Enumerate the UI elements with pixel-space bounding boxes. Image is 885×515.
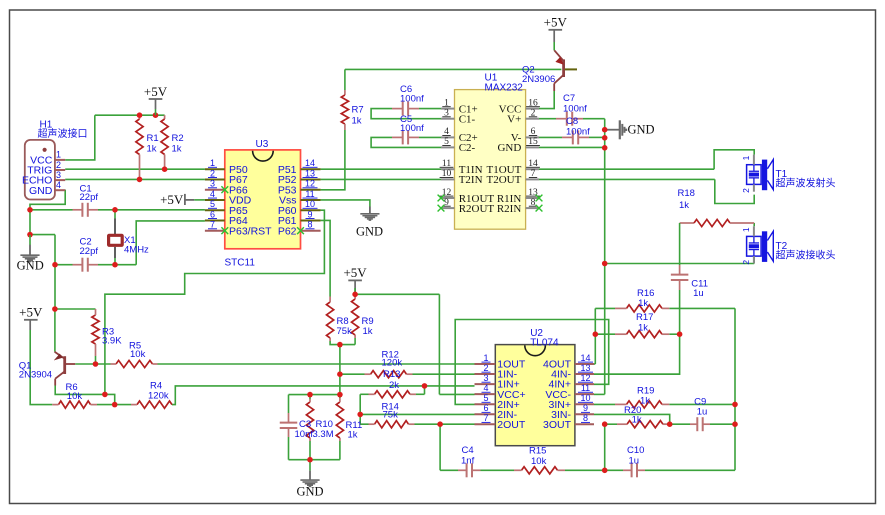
svg-text:超声波发射头: 超声波发射头 bbox=[776, 177, 836, 190]
svg-text:GND: GND bbox=[628, 123, 655, 137]
svg-text:T2IN: T2IN bbox=[459, 174, 483, 186]
svg-text:1k: 1k bbox=[147, 144, 157, 155]
svg-text:R7: R7 bbox=[352, 105, 364, 116]
svg-text:4: 4 bbox=[210, 189, 215, 199]
svg-text:2OUT: 2OUT bbox=[497, 419, 526, 431]
svg-text:+5V: +5V bbox=[544, 15, 568, 30]
svg-text:14: 14 bbox=[580, 353, 590, 363]
svg-text:3OUT: 3OUT bbox=[543, 419, 572, 431]
svg-text:R2IN: R2IN bbox=[497, 203, 522, 215]
svg-text:GND: GND bbox=[17, 258, 44, 272]
svg-text:13: 13 bbox=[305, 168, 315, 178]
svg-text:+5V: +5V bbox=[343, 265, 367, 280]
svg-text:R2: R2 bbox=[172, 133, 184, 144]
svg-text:22pf: 22pf bbox=[80, 192, 99, 203]
svg-text:1k: 1k bbox=[640, 395, 650, 406]
svg-text:11: 11 bbox=[305, 189, 314, 199]
svg-text:100nf: 100nf bbox=[566, 127, 590, 138]
svg-text:C4: C4 bbox=[462, 445, 474, 456]
svg-text:GND: GND bbox=[497, 142, 521, 154]
svg-text:2: 2 bbox=[56, 160, 61, 170]
svg-text:5: 5 bbox=[483, 393, 488, 403]
svg-text:GND: GND bbox=[356, 224, 383, 238]
svg-text:2: 2 bbox=[741, 260, 751, 265]
svg-text:10k: 10k bbox=[531, 456, 547, 467]
svg-text:3.3M: 3.3M bbox=[313, 429, 334, 440]
svg-text:14: 14 bbox=[305, 158, 315, 168]
svg-text:100nf: 100nf bbox=[400, 123, 424, 134]
svg-text:7: 7 bbox=[483, 413, 488, 423]
svg-text:+5V: +5V bbox=[160, 192, 184, 207]
svg-text:7: 7 bbox=[210, 220, 215, 230]
svg-text:9: 9 bbox=[307, 209, 312, 219]
svg-text:11: 11 bbox=[581, 383, 590, 393]
svg-text:R17: R17 bbox=[636, 312, 653, 323]
svg-text:R1: R1 bbox=[147, 133, 159, 144]
svg-text:超声波接口: 超声波接口 bbox=[38, 127, 88, 140]
svg-text:8: 8 bbox=[583, 413, 588, 423]
svg-text:P63/RST: P63/RST bbox=[229, 225, 272, 237]
svg-text:R2OUT: R2OUT bbox=[459, 203, 495, 215]
svg-text:1u: 1u bbox=[629, 455, 640, 466]
svg-text:V+: V+ bbox=[507, 114, 521, 126]
svg-text:2k: 2k bbox=[389, 380, 399, 391]
svg-text:GND: GND bbox=[29, 185, 53, 197]
svg-text:U3: U3 bbox=[256, 139, 269, 150]
svg-text:12: 12 bbox=[580, 373, 590, 383]
svg-text:2: 2 bbox=[483, 363, 488, 373]
svg-text:75k: 75k bbox=[337, 326, 353, 337]
svg-text:10: 10 bbox=[580, 393, 590, 403]
svg-text:120k: 120k bbox=[148, 390, 169, 401]
svg-text:1k: 1k bbox=[363, 326, 373, 337]
svg-text:C1-: C1- bbox=[459, 114, 476, 126]
svg-text:3: 3 bbox=[483, 373, 488, 383]
svg-text:10k: 10k bbox=[67, 391, 83, 402]
svg-text:C2-: C2- bbox=[459, 142, 476, 154]
svg-text:6: 6 bbox=[483, 403, 488, 413]
svg-text:4: 4 bbox=[483, 383, 488, 393]
svg-text:R18: R18 bbox=[678, 188, 695, 199]
svg-text:1k: 1k bbox=[172, 144, 182, 155]
svg-text:1: 1 bbox=[741, 227, 751, 232]
svg-text:STC11: STC11 bbox=[225, 258, 256, 269]
svg-text:1: 1 bbox=[210, 158, 215, 168]
svg-text:+5V: +5V bbox=[144, 84, 168, 99]
svg-text:1: 1 bbox=[741, 155, 751, 160]
svg-text:6: 6 bbox=[210, 209, 215, 219]
svg-text:120k: 120k bbox=[382, 358, 403, 369]
svg-text:1k: 1k bbox=[679, 200, 689, 211]
svg-text:100nf: 100nf bbox=[400, 94, 424, 105]
svg-text:1nf: 1nf bbox=[461, 456, 475, 467]
svg-text:12: 12 bbox=[305, 179, 315, 189]
svg-text:5: 5 bbox=[210, 199, 215, 209]
svg-text:1k: 1k bbox=[352, 116, 362, 127]
svg-text:1: 1 bbox=[56, 150, 61, 160]
svg-text:P62: P62 bbox=[278, 225, 297, 237]
svg-text:1k: 1k bbox=[638, 323, 648, 334]
svg-text:4MHz: 4MHz bbox=[124, 245, 149, 256]
svg-text:2: 2 bbox=[741, 188, 751, 193]
svg-text:C8: C8 bbox=[566, 116, 578, 127]
svg-text:10: 10 bbox=[305, 199, 315, 209]
svg-text:10nf: 10nf bbox=[295, 429, 314, 440]
svg-text:C10: C10 bbox=[627, 445, 644, 456]
svg-text:GND: GND bbox=[296, 484, 323, 498]
svg-text:2N3906: 2N3906 bbox=[522, 74, 555, 85]
svg-text:10k: 10k bbox=[130, 349, 146, 360]
svg-text:MAX232: MAX232 bbox=[485, 83, 524, 94]
svg-text:2N3904: 2N3904 bbox=[19, 370, 52, 381]
svg-text:R13: R13 bbox=[383, 369, 400, 380]
svg-text:100nf: 100nf bbox=[563, 104, 587, 115]
svg-text:超声波接收头: 超声波接收头 bbox=[776, 248, 836, 261]
svg-text:75k: 75k bbox=[383, 409, 399, 420]
svg-text:1u: 1u bbox=[697, 406, 708, 417]
svg-text:8: 8 bbox=[307, 220, 312, 230]
svg-text:C7: C7 bbox=[563, 93, 575, 104]
svg-text:1: 1 bbox=[483, 353, 488, 363]
svg-text:3: 3 bbox=[210, 179, 215, 189]
svg-text:3: 3 bbox=[56, 170, 61, 180]
svg-text:13: 13 bbox=[580, 363, 590, 373]
svg-text:1u: 1u bbox=[693, 288, 704, 299]
svg-text:22pf: 22pf bbox=[80, 246, 99, 257]
svg-text:TL074: TL074 bbox=[530, 337, 559, 348]
svg-text:1k: 1k bbox=[638, 298, 648, 309]
svg-text:1k: 1k bbox=[632, 414, 642, 425]
svg-text:1k: 1k bbox=[348, 430, 358, 441]
svg-text:R15: R15 bbox=[529, 446, 546, 457]
svg-text:4: 4 bbox=[56, 180, 61, 190]
svg-text:9: 9 bbox=[583, 403, 588, 413]
svg-text:T2OUT: T2OUT bbox=[486, 174, 521, 186]
svg-text:3.9K: 3.9K bbox=[102, 336, 122, 347]
svg-text:+5V: +5V bbox=[19, 305, 43, 320]
svg-text:2: 2 bbox=[210, 168, 215, 178]
